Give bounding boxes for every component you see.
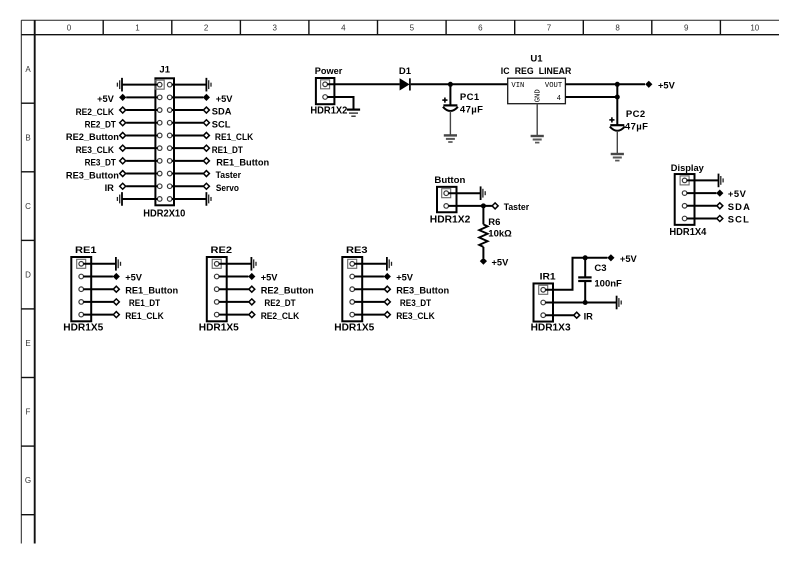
svg-text:U1: U1 — [530, 53, 543, 64]
ground at Button pin 1 — [481, 186, 486, 200]
wire J1 left pin to net RE3_Button — [126, 173, 157, 175]
svg-text:5: 5 — [410, 24, 415, 33]
wire J1 right pin row 1 to ground — [172, 84, 207, 86]
svg-text:VOUT: VOUT — [545, 82, 563, 90]
node RE3_DT — [384, 298, 431, 308]
svg-text:PC2: PC2 — [626, 109, 646, 120]
wire RE2 pin 5 to RE2_CLK — [219, 314, 249, 316]
node +5V (left of J1) — [97, 94, 126, 104]
wire J1 left pin row 10 to ground — [122, 198, 158, 200]
svg-text:8: 8 — [615, 24, 620, 33]
svg-text:+5V: +5V — [97, 94, 115, 104]
connector J1 HDR2X10 — [155, 78, 174, 205]
svg-text:HDR1X2: HDR1X2 — [430, 215, 471, 226]
connector Power HDR1X2 — [316, 78, 335, 104]
svg-text:GND: GND — [535, 89, 543, 102]
node Servo (right of J1) — [203, 183, 239, 193]
wire RE3 pin 4 to RE3_DT — [354, 301, 384, 303]
node RE2_DT (left of J1) — [85, 119, 126, 129]
wire Display pin 3 to SDA — [687, 205, 717, 207]
svg-text:1: 1 — [135, 24, 140, 33]
svg-text:RE1_DT: RE1_DT — [212, 145, 243, 155]
wire RE2 pin 1 to ground — [219, 263, 252, 265]
node +5V at regulator output — [645, 80, 675, 90]
connector RE3 HDR1X5 — [342, 257, 362, 321]
wire D1 cathode to node VIN — [411, 83, 451, 85]
wire rail down to capacitor PC2 — [616, 84, 618, 125]
node +5V at Display — [716, 188, 746, 199]
ground at Display pin 1 — [719, 174, 724, 188]
svg-text:RE1_DT: RE1_DT — [129, 298, 160, 308]
svg-text:HDR1X5: HDR1X5 — [63, 323, 103, 334]
node IR — [574, 311, 593, 321]
svg-text:Display: Display — [671, 163, 705, 174]
wire junction down to resistor R6 — [482, 206, 484, 225]
svg-text:RE2_Button: RE2_Button — [261, 285, 314, 295]
junction C3 bottom — [583, 300, 588, 305]
svg-text:R6: R6 — [488, 217, 500, 228]
wire RE1 pin 5 to RE1_CLK — [83, 314, 113, 316]
svg-text:6: 6 — [478, 24, 483, 33]
node RE2_Button — [249, 285, 314, 295]
wire rail down to capacitor C3 — [584, 258, 586, 277]
wire C3 down to IR1 pin 2 wire — [584, 281, 586, 303]
op-amp U1 IC REG LINEAR box — [508, 78, 566, 104]
svg-text:4: 4 — [341, 24, 346, 33]
node Taster — [492, 202, 529, 212]
svg-text:RE1_Button: RE1_Button — [125, 285, 178, 295]
svg-text:4: 4 — [557, 95, 561, 103]
svg-text:F: F — [26, 408, 31, 417]
wire J1 right pin to net SCL — [172, 122, 203, 124]
ground at J1 left pin row 1 — [117, 78, 122, 92]
wire junction to U1 VIN pin — [450, 83, 507, 85]
wire IR1 pin 1 up to +5V rail — [545, 258, 607, 290]
wire J1 left pin to net RE2_DT — [126, 122, 157, 124]
node SDA — [717, 201, 751, 212]
svg-text:HDR1X5: HDR1X5 — [334, 323, 374, 334]
wire Button pin 1 to ground — [448, 192, 480, 194]
wire Display pin 1 to ground — [687, 179, 719, 181]
ground at J1 left pin row 10 — [117, 192, 122, 206]
node RE1_DT — [113, 298, 160, 308]
svg-text:D1: D1 — [399, 66, 412, 77]
ground below PC2 — [611, 154, 624, 161]
node +5V (right of J1) — [203, 94, 233, 104]
wire J1 left pin to net RE2_CLK — [126, 109, 157, 111]
svg-text:2: 2 — [204, 24, 209, 33]
wire R6 to +5V node — [482, 247, 484, 258]
wire J1 left pin to net RE3_CLK — [126, 147, 157, 149]
svg-text:HDR1X4: HDR1X4 — [669, 227, 706, 238]
wire RE1 pin 2 to +5V — [83, 276, 113, 278]
wire J1 left pin to net IR — [126, 185, 157, 187]
svg-text:RE1_CLK: RE1_CLK — [125, 311, 164, 321]
svg-text:SCL: SCL — [728, 214, 750, 225]
svg-text:100nF: 100nF — [594, 278, 622, 289]
wire IR1 pin 3 to IR node — [545, 314, 573, 316]
wire RE3 pin 2 to +5V — [354, 276, 384, 278]
svg-text:47µF: 47µF — [460, 104, 483, 115]
wire J1 left pin to net RE3_DT — [126, 160, 157, 162]
svg-text:9: 9 — [684, 24, 689, 33]
svg-text:IR: IR — [105, 183, 115, 193]
node RE3_DT (left of J1) — [85, 158, 126, 168]
node RE1_CLK — [113, 311, 164, 321]
wire J1 left pin to net +5V — [126, 96, 157, 98]
wire junction down to capacitor PC1 — [449, 84, 451, 105]
node RE3_CLK — [384, 311, 435, 321]
wire Display pin 2 to +5V — [687, 192, 717, 194]
svg-text:Servo: Servo — [216, 183, 239, 193]
svg-text:VIN: VIN — [511, 82, 524, 90]
svg-text:RE3_DT: RE3_DT — [400, 298, 431, 308]
svg-text:RE3_CLK: RE3_CLK — [396, 311, 435, 321]
svg-text:3: 3 — [272, 24, 277, 33]
junction C3 top — [583, 255, 588, 260]
wire RE1 pin 3 to RE1_Button — [83, 288, 113, 290]
ground at RE3 pin 1 — [387, 257, 392, 271]
wire Power pin 2 to ground — [327, 97, 353, 109]
node SDA (right of J1) — [203, 107, 231, 117]
diode D1 — [400, 78, 410, 90]
wire J1 right pin to net Servo — [172, 185, 203, 187]
node RE1_CLK (right of J1) — [203, 132, 253, 142]
svg-text:+5V: +5V — [658, 80, 676, 90]
node +5V at IR1 — [607, 254, 637, 264]
wire J1 right pin to net +5V — [172, 96, 203, 98]
svg-text:E: E — [25, 339, 30, 348]
node +5V at RE2 — [248, 273, 278, 283]
svg-text:7: 7 — [547, 24, 552, 33]
connector Button HDR1X2 — [437, 187, 457, 212]
svg-text:RE3_Button: RE3_Button — [66, 170, 119, 180]
wire RE3 pin 5 to RE3_CLK — [354, 314, 384, 316]
connector RE1 HDR1X5 — [71, 257, 91, 321]
svg-text:J1: J1 — [159, 65, 170, 76]
svg-text:47µF: 47µF — [625, 122, 648, 133]
svg-text:SCL: SCL — [212, 119, 231, 129]
svg-text:Power: Power — [315, 66, 343, 77]
svg-text:SDA: SDA — [728, 201, 751, 212]
junction at PC1 / VIN node — [448, 82, 453, 87]
wire Power pin 1 to diode D1 — [327, 83, 399, 85]
svg-text:D: D — [25, 271, 31, 280]
svg-text:+5V: +5V — [728, 188, 747, 199]
wire J1 right pin to net SDA — [172, 109, 203, 111]
svg-text:RE3: RE3 — [346, 245, 368, 256]
svg-text:IC REG LINEAR: IC REG LINEAR — [501, 66, 572, 77]
svg-text:RE2_DT: RE2_DT — [85, 119, 116, 129]
ground at J1 right pin row 1 — [206, 78, 211, 92]
wire U1 pin 4 to rail — [565, 96, 617, 98]
svg-text:HDR1X2: HDR1X2 — [310, 105, 347, 116]
svg-text:IR: IR — [584, 311, 594, 321]
junction rail lower — [615, 95, 620, 100]
wire RE2 pin 4 to RE2_DT — [219, 301, 249, 303]
wire RE1 pin 1 to ground — [83, 263, 116, 265]
svg-text:IR1: IR1 — [540, 271, 557, 282]
connector RE2 HDR1X5 — [207, 257, 227, 321]
svg-text:10: 10 — [750, 24, 759, 33]
node RE3_CLK (left of J1) — [76, 145, 126, 155]
svg-text:HDR2X10: HDR2X10 — [143, 209, 185, 220]
svg-text:+5V: +5V — [620, 254, 638, 264]
U1 GND pin wire — [536, 104, 538, 136]
svg-text:RE2: RE2 — [211, 245, 233, 256]
ground at Power pin 2 — [347, 110, 360, 117]
svg-text:10kΩ: 10kΩ — [488, 228, 512, 239]
node Taster (right of J1) — [203, 170, 241, 180]
svg-text:C: C — [25, 202, 31, 211]
node RE2_DT — [249, 298, 296, 308]
svg-text:Taster: Taster — [504, 202, 530, 212]
connector Display HDR1X4 — [675, 174, 695, 225]
capacitor C3 100nF — [578, 277, 591, 281]
wire RE3 pin 3 to RE3_Button — [354, 288, 384, 290]
node RE1_Button — [113, 285, 178, 295]
svg-text:PC1: PC1 — [460, 92, 480, 103]
svg-text:+5V: +5V — [125, 273, 143, 283]
svg-text:Taster: Taster — [216, 170, 242, 180]
svg-text:RE2_Button: RE2_Button — [66, 132, 119, 142]
svg-text:+5V: +5V — [396, 273, 414, 283]
connector IR1 HDR1X3 — [534, 283, 554, 321]
svg-text:RE2_CLK: RE2_CLK — [261, 311, 300, 321]
svg-text:RE2_DT: RE2_DT — [264, 298, 295, 308]
svg-text:RE2_CLK: RE2_CLK — [76, 107, 115, 117]
node IR (left of J1) — [105, 183, 126, 193]
svg-text:HDR1X3: HDR1X3 — [531, 323, 571, 334]
wire RE2 pin 2 to +5V — [219, 276, 249, 278]
junction Button pin 2 / R6 — [481, 203, 486, 208]
node RE2_CLK — [249, 311, 300, 321]
svg-text:RE3_CLK: RE3_CLK — [76, 145, 115, 155]
svg-text:B: B — [25, 133, 30, 142]
wire J1 right pin to net Taster — [172, 173, 203, 175]
svg-text:SDA: SDA — [212, 107, 232, 117]
node +5V at RE3 — [384, 273, 414, 283]
svg-text:HDR1X5: HDR1X5 — [199, 323, 239, 334]
svg-text:Button: Button — [434, 175, 465, 186]
node RE2_Button (left of J1) — [66, 132, 126, 142]
svg-text:A: A — [25, 65, 31, 74]
wire J1 right pin to net RE1_DT — [172, 147, 203, 149]
wire PC2 to ground — [616, 131, 618, 154]
capacitor PC1 47uF polarized — [442, 98, 458, 112]
svg-text:0: 0 — [67, 24, 72, 33]
svg-text:+5V: +5V — [216, 94, 234, 104]
resistor R6 — [479, 224, 487, 247]
wire Button pin 2 to Taster node — [448, 205, 492, 207]
svg-text:RE1: RE1 — [75, 245, 97, 256]
node RE2_CLK (left of J1) — [76, 107, 126, 117]
svg-text:RE3_Button: RE3_Button — [396, 285, 449, 295]
wire J1 right pin to net RE1_CLK — [172, 134, 203, 136]
node SCL (right of J1) — [203, 119, 230, 129]
node +5V at RE1 — [113, 273, 143, 283]
wire IR1 pin 2 to ground — [545, 302, 616, 304]
wire PC1 to ground — [449, 111, 451, 135]
svg-text:G: G — [25, 476, 31, 485]
ground at IR1 pin 2 — [617, 296, 622, 310]
svg-text:RE1_Button: RE1_Button — [216, 157, 269, 167]
wire U1 VOUT to +5V node — [565, 83, 645, 85]
node RE1_Button (right of J1) — [203, 157, 269, 167]
ground at RE1 pin 1 — [116, 257, 121, 271]
ground below PC1 — [444, 135, 457, 142]
wire RE2 pin 3 to RE2_Button — [219, 288, 249, 290]
node RE3_Button — [384, 285, 449, 295]
wire J1 right pin to net RE1_Button — [172, 160, 203, 162]
node RE1_DT (right of J1) — [203, 145, 243, 155]
svg-text:+5V: +5V — [492, 257, 510, 267]
node +5V below R6 — [480, 257, 509, 267]
wire Display pin 4 to SCL — [687, 218, 717, 220]
ground at J1 right pin row 10 — [206, 192, 211, 206]
svg-text:RE3_DT: RE3_DT — [85, 158, 116, 168]
svg-text:C3: C3 — [594, 263, 606, 274]
node RE3_Button (left of J1) — [66, 170, 126, 180]
junction VOUT rail upper — [615, 82, 620, 87]
svg-text:RE1_CLK: RE1_CLK — [215, 132, 254, 142]
ground at RE2 pin 1 — [251, 257, 256, 271]
wire RE3 pin 1 to ground — [354, 263, 387, 265]
capacitor PC2 47uF polarized — [609, 117, 625, 131]
node SCL — [717, 214, 750, 225]
wire J1 right pin row 10 to ground — [172, 198, 207, 200]
svg-text:+5V: +5V — [261, 273, 279, 283]
wire J1 left pin to net RE2_Button — [126, 134, 157, 136]
wire RE1 pin 4 to RE1_DT — [83, 301, 113, 303]
ground below U1 — [531, 136, 544, 143]
wire J1 left pin row 1 to ground — [122, 84, 158, 86]
